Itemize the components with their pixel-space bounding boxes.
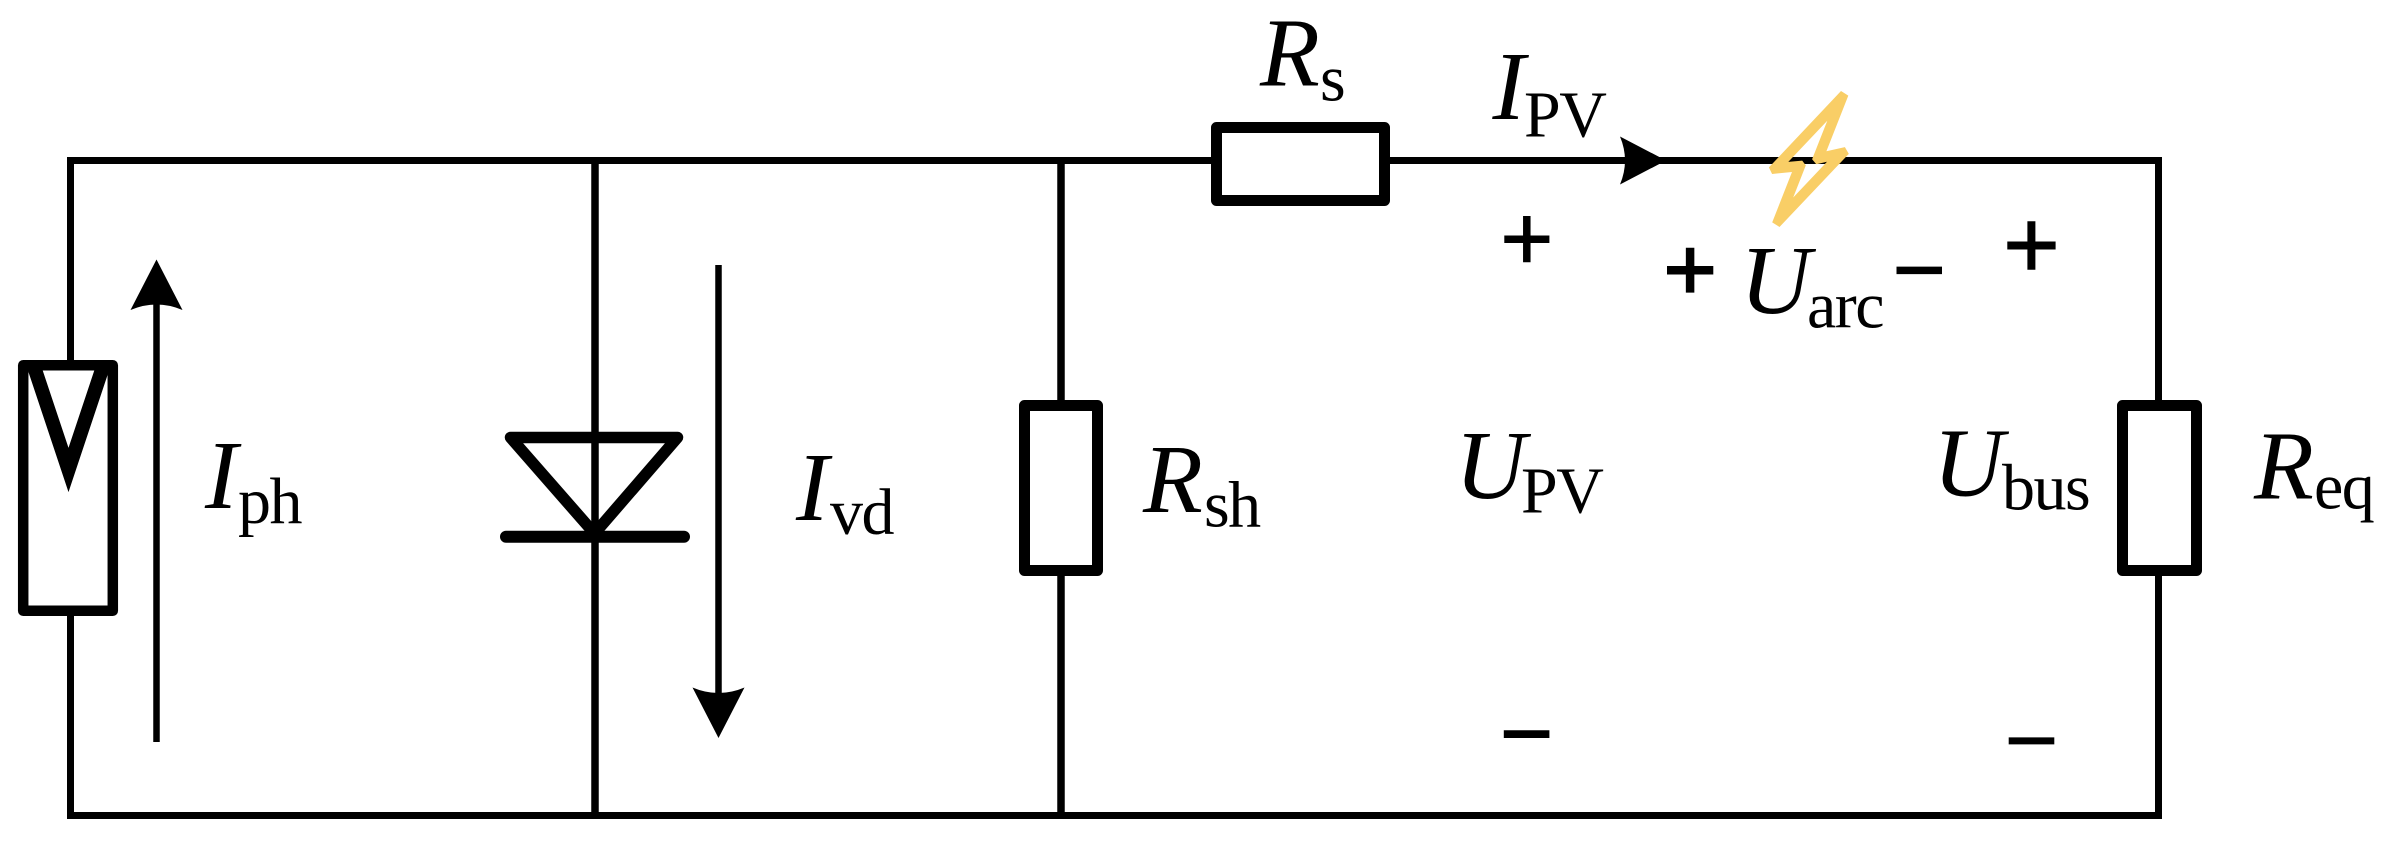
arrow Iph : head (up) [131,260,183,311]
svg-text:PV: PV [1521,455,1603,528]
svg-text:R: R [1142,426,1203,534]
wire : Rsh branch vertical [1057,161,1065,816]
plus sign of UPV [1504,216,1549,262]
wire : right branch vertical [2155,157,2162,819]
minus sign of UPV [1504,730,1550,738]
svg-text:vd: vd [830,476,895,549]
resistor Rs : body [1217,128,1385,201]
current source Iph : V mark inside [34,367,103,471]
svg-text:bus: bus [2002,452,2089,525]
plus sign of Ubus [2007,221,2055,269]
svg-text:R: R [2253,413,2314,521]
svg-text:arc: arc [1807,270,1883,343]
svg-text:U: U [1933,410,2010,518]
plus sign of Uarc [1667,248,1713,293]
arrow IPV : head (right) on top wire [1620,137,1666,185]
svg-text:s: s [1320,43,1344,116]
svg-text:I: I [795,434,833,542]
minus sign of Uarc [1897,267,1943,275]
svg-text:eq: eq [2314,451,2374,524]
wire : bottom return [67,812,2162,819]
diode VD : cathode bar [506,531,684,543]
current source Iph : rectangle body [23,365,113,611]
arrow Iph : shaft [153,300,160,742]
arc fault lightning bolt [1769,91,1849,227]
svg-text:PV: PV [1524,79,1606,152]
resistor Rsh : body [1025,406,1098,571]
wire : left branch vertical [67,157,74,819]
minus sign of Ubus [2009,737,2055,744]
arrow Ivd : shaft [715,265,722,700]
svg-text:I: I [204,422,242,530]
diode VD : triangle [511,438,678,534]
svg-text:R: R [1259,0,1320,107]
svg-text:sh: sh [1204,468,1261,541]
arrow Ivd : head (down) [693,688,745,739]
wire : top bus [67,157,2162,164]
svg-text:ph: ph [238,465,303,538]
resistor Req : body [2123,406,2197,571]
wire : diode branch vertical [591,161,599,816]
svg-text:U: U [1740,227,1817,335]
